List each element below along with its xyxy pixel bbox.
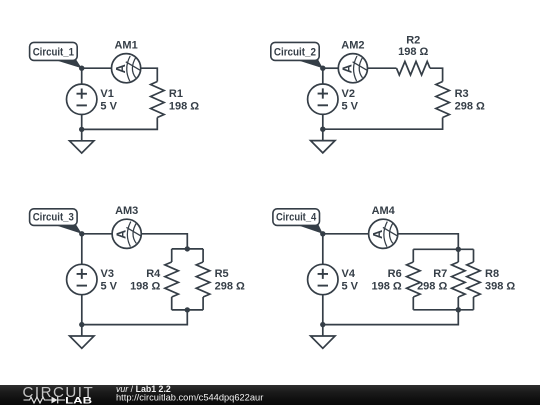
svg-text:A: A [341,64,355,73]
wire V1 to ground rail [81,115,83,130]
logo diode symbol [52,397,58,404]
junction node2 [320,66,325,71]
node label flag Circuit_3 [30,209,82,234]
node label flag Circuit_4 [273,209,323,234]
junction bottom bus 4 [456,307,461,312]
resistor R3 [436,82,485,118]
svg-text:A: A [371,230,385,239]
resistor R2 [397,35,431,76]
resistor R8 [467,249,516,309]
svg-text:Circuit_1: Circuit_1 [33,46,74,58]
svg-text:R4: R4 [146,268,161,280]
ammeter AM1 [112,39,141,82]
wire R1 to bottom rail [82,118,158,130]
footer bar [0,385,540,405]
wire bottom bus circuit 4 [413,309,473,311]
svg-text:AM4: AM4 [372,205,396,217]
svg-text:5 V: 5 V [342,281,359,293]
ammeter AM3 [112,205,141,248]
wire top bus circuit 3 [172,248,203,250]
wire node4 to AM4 [323,233,369,235]
svg-text:http://circuitlab.com/c544dpq6: http://circuitlab.com/c544dpq622aur [116,393,263,403]
wire bottom bus circuit 3 [172,309,203,311]
wire node1 to AM1 [82,67,112,69]
wire bank to bottom rail 3 [82,310,188,325]
resistor R1 [151,82,200,118]
resistor R5 [196,249,245,310]
wire node2 to AM2 [323,67,339,69]
voltage source V2 [308,84,359,114]
junction top bus 3 [185,246,190,251]
svg-text:198 Ω: 198 Ω [371,281,401,293]
svg-text:R7: R7 [433,268,447,280]
junction node4 [320,231,325,236]
svg-text:R2: R2 [406,35,420,47]
svg-text:298 Ω: 298 Ω [417,281,447,293]
svg-text:AM1: AM1 [114,39,137,51]
wire AM4 to parallel bank [398,234,459,250]
ground [70,325,94,349]
node label flag Circuit_2 [271,42,323,68]
junction node3 [79,231,84,236]
svg-text:A: A [114,64,128,73]
ammeter AM2 [338,39,367,82]
junction at ground rail 3 [79,322,84,327]
wire R3 to bottom rail [323,118,443,130]
svg-text:LAB: LAB [65,395,92,405]
svg-text:5 V: 5 V [342,100,359,112]
svg-text:R1: R1 [169,88,183,100]
wire bank to bottom rail 4 [323,310,459,325]
voltage source V1 [67,84,118,114]
wire AM1 to R1 [141,68,158,81]
wire AM3 to parallel bank [141,234,187,249]
junction at ground rail 4 [320,322,325,327]
svg-text:5 V: 5 V [101,281,118,293]
svg-text:V3: V3 [101,268,114,280]
wire AM2 to R2 [368,67,397,69]
svg-text:Circuit_2: Circuit_2 [274,46,316,58]
voltage source V3 [67,264,118,294]
wire V2 to ground rail [322,114,324,129]
svg-text:Circuit_4: Circuit_4 [276,211,317,223]
svg-text:R3: R3 [455,88,469,100]
svg-text:V4: V4 [342,268,356,280]
wire node3 to AM3 [82,233,112,235]
wire V4 to ground rail [322,295,324,325]
svg-text:R8: R8 [485,268,499,280]
svg-text:198 Ω: 198 Ω [398,46,428,58]
svg-text:R6: R6 [388,268,402,280]
voltage source V4 [308,264,359,294]
wire node2 to V2 [322,68,324,84]
ground [311,129,335,153]
wire top bus circuit 4 [413,248,473,250]
junction at ground rail 2 [320,127,325,132]
wire V3 to ground rail [81,295,83,325]
wire node3 to V3 [81,234,83,264]
wire R2 to R3 [430,68,443,81]
resistor R7 [417,249,465,309]
svg-text:298 Ω: 298 Ω [455,101,485,113]
junction top bus 4 [456,247,461,252]
logo schematic squiggle: wire and resistor [24,397,66,403]
svg-text:Circuit_3: Circuit_3 [33,211,74,223]
junction node1 [79,66,84,71]
resistor R4 [130,249,178,310]
svg-text:AM2: AM2 [341,39,364,51]
svg-text:V1: V1 [100,88,113,100]
resistor R6 [371,249,420,309]
ground [70,129,94,153]
wire node1 to V1 [81,68,83,84]
junction bottom bus 3 [185,307,190,312]
svg-text:198 Ω: 198 Ω [169,101,199,113]
wire node4 to V4 [322,234,324,264]
ground [311,325,335,349]
ammeter AM4 [369,205,398,248]
svg-text:398 Ω: 398 Ω [485,281,515,293]
svg-text:AM3: AM3 [115,205,138,217]
svg-text:A: A [115,230,129,239]
svg-text:R5: R5 [215,268,229,280]
svg-text:298 Ω: 298 Ω [215,281,245,293]
node label flag Circuit_1 [30,42,82,68]
junction at ground rail 1 [79,127,84,132]
svg-text:198 Ω: 198 Ω [130,281,160,293]
svg-text:5 V: 5 V [100,101,117,113]
svg-text:V2: V2 [342,88,355,100]
